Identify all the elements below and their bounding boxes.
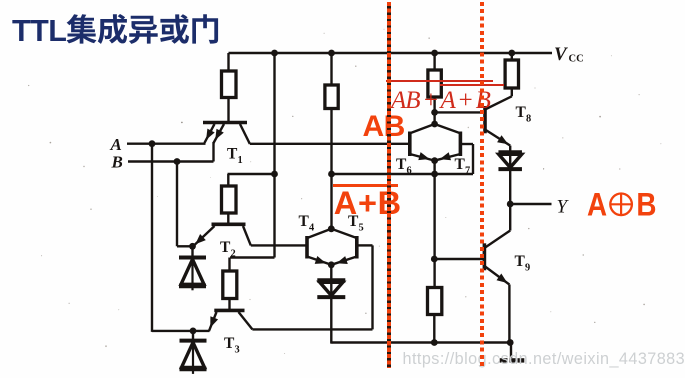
resistor R1 <box>222 53 237 121</box>
label T7 <box>455 156 471 177</box>
wire bottom left <box>152 330 210 332</box>
wire T2 collector to T4 base <box>251 244 306 246</box>
diode D3 <box>317 265 345 344</box>
svg-text:6: 6 <box>407 166 412 177</box>
node Y junction <box>507 201 514 208</box>
node B junction <box>174 158 181 165</box>
transistor T3 <box>209 310 252 331</box>
resistor R3 <box>223 271 237 309</box>
annotation AB <box>363 110 405 144</box>
transistor pair T6 T7 <box>410 121 461 174</box>
svg-text:5: 5 <box>359 223 364 234</box>
wire R2 feed <box>228 174 275 186</box>
annotation A+B <box>334 185 402 222</box>
label A <box>110 135 122 154</box>
svg-text:T: T <box>224 335 235 352</box>
resistor R2 <box>222 186 237 223</box>
resistor R5 <box>428 53 441 124</box>
label T4 <box>299 213 315 234</box>
svg-text:T: T <box>227 146 238 163</box>
svg-text:T: T <box>299 213 310 230</box>
svg-text:V: V <box>554 44 568 65</box>
wire T3 collector run <box>252 245 372 329</box>
wire T9 base link <box>434 258 484 260</box>
label T8 <box>516 104 532 125</box>
node Vcc junction 4 <box>508 50 515 57</box>
resistor R6 <box>505 53 518 88</box>
transistor T2 <box>194 224 251 246</box>
red overline partial <box>440 84 504 86</box>
node T8 base junction <box>431 109 438 116</box>
node Vcc junction 1 <box>271 50 278 57</box>
svg-text:T: T <box>396 156 407 173</box>
diode D2 <box>180 331 207 374</box>
resistor R4 <box>325 53 338 229</box>
wire center column <box>433 174 435 288</box>
node R2 feed junction <box>271 171 278 178</box>
node T2 emitter junction <box>189 243 196 250</box>
wire phase link <box>332 173 435 175</box>
ground <box>500 343 525 361</box>
resistor R7 <box>428 288 442 343</box>
wire input A <box>127 142 206 144</box>
noise speckles <box>28 29 661 354</box>
svg-text:1: 1 <box>238 155 243 166</box>
node Vcc junction 2 <box>328 50 335 57</box>
node bottom junction 2 <box>507 339 514 346</box>
svg-text:3: 3 <box>235 345 240 356</box>
wire A-column drop <box>151 144 153 332</box>
red overline full <box>386 80 493 82</box>
svg-text:4: 4 <box>309 223 314 234</box>
diode D1 <box>179 246 206 290</box>
annotation A xor B <box>584 188 664 222</box>
label T1 <box>227 146 243 167</box>
svg-text:TTL: TTL <box>12 14 66 48</box>
node T9 base junction <box>431 256 438 263</box>
dotted cut line 1 <box>387 2 391 368</box>
label Vcc <box>554 44 584 65</box>
label B <box>111 153 123 172</box>
watermark <box>403 350 685 369</box>
title text 集成异或门 (outlines) <box>67 14 219 44</box>
red formula AB+A+B <box>391 87 501 115</box>
svg-text:9: 9 <box>525 263 530 274</box>
label T6 <box>396 156 412 177</box>
wire output Y <box>510 203 551 205</box>
wire T5 base link <box>357 244 373 246</box>
node bottom junction 1 <box>431 339 438 346</box>
label T9 <box>515 253 531 274</box>
transistor pair T4 T5 <box>307 225 357 268</box>
svg-text:B: B <box>636 188 656 222</box>
svg-text:CC: CC <box>569 54 584 65</box>
diode D4 <box>498 152 522 204</box>
node D2 junction <box>190 328 197 335</box>
wire T7 base loop <box>435 144 473 174</box>
wire bottom rail <box>331 341 511 343</box>
svg-text:T: T <box>220 239 231 256</box>
wire T1 collector to T6 base <box>250 143 410 145</box>
node Vcc junction 3 <box>431 50 438 57</box>
label T5 <box>348 213 364 234</box>
wire B-column drop <box>177 162 193 247</box>
svg-text:Y: Y <box>557 197 570 218</box>
transistor T8 <box>485 88 512 152</box>
label Y <box>557 197 570 218</box>
svg-text:T: T <box>516 104 527 121</box>
dotted cut line 2 <box>480 2 484 368</box>
svg-text:B: B <box>111 153 123 172</box>
wire Vcc drop column 2 <box>230 53 275 271</box>
node phase junction <box>328 171 335 178</box>
node A junction <box>149 140 156 147</box>
label T2 <box>220 239 236 260</box>
wire T8 base link <box>435 111 485 113</box>
svg-text:A: A <box>110 135 122 154</box>
svg-text:8: 8 <box>526 114 531 125</box>
wire input B <box>128 160 214 162</box>
transistor T1 multi-emitter <box>203 123 250 162</box>
label T3 <box>224 335 240 356</box>
wire Vcc rail <box>229 52 553 54</box>
transistor T9 <box>484 204 510 343</box>
svg-text:A: A <box>587 188 608 222</box>
svg-text:T: T <box>455 156 466 173</box>
svg-text:T: T <box>515 253 526 270</box>
node T6T7 foot junction <box>431 171 438 178</box>
annotation A+B overline <box>333 184 398 188</box>
